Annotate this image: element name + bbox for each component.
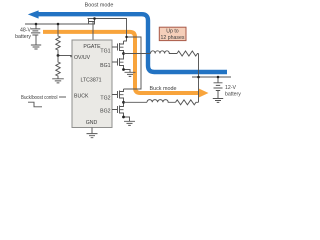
ground 48V battery <box>31 45 41 49</box>
svg-text:battery: battery <box>15 34 31 40</box>
transistor BG1 MOSFET <box>112 54 124 70</box>
wire BUCK control <box>59 96 66 98</box>
svg-text:BG1: BG1 <box>100 63 110 69</box>
svg-text:BG2: BG2 <box>100 109 110 115</box>
resistor R1 divider top <box>56 24 60 56</box>
node output join <box>197 76 200 79</box>
ground 12V battery <box>213 99 223 103</box>
inductor L1 <box>151 51 178 54</box>
svg-text:LTC3871: LTC3871 <box>81 77 102 83</box>
svg-text:Up to: Up to <box>166 29 179 35</box>
battery 12V <box>214 77 223 98</box>
node BG2 source <box>122 116 125 119</box>
label 12-V battery <box>225 85 241 98</box>
svg-text:battery: battery <box>225 92 241 98</box>
wire phase 2 switch node <box>124 101 148 103</box>
svg-text:OV/UV: OV/UV <box>74 55 91 61</box>
svg-text:GND: GND <box>86 120 98 126</box>
node switch phase 2 <box>122 101 125 104</box>
node feed branch <box>125 36 127 38</box>
ground divider <box>52 79 64 83</box>
transistor BG2 MOSFET <box>112 102 124 117</box>
svg-text:Boost mode: Boost mode <box>85 3 114 9</box>
waveform pulse symbol <box>28 102 42 107</box>
svg-text:12-V: 12-V <box>225 85 236 91</box>
node battery to rail <box>35 23 38 26</box>
wire 12V rail <box>192 76 231 78</box>
svg-text:TG2: TG2 <box>100 96 110 102</box>
ground BG2 <box>124 121 135 125</box>
svg-text:PGATE: PGATE <box>83 44 101 50</box>
svg-text:BUCK: BUCK <box>74 93 89 99</box>
svg-text:12 phases: 12 phases <box>161 35 185 41</box>
resistor R3 phase 1 <box>177 51 199 56</box>
pin tick OV/UV <box>70 55 73 57</box>
resistor R2 divider bottom <box>56 56 60 79</box>
svg-text:Buck/boost control: Buck/boost control <box>21 95 58 101</box>
svg-text:TG1: TG1 <box>100 49 110 55</box>
wire 48V branch to TG2 drain <box>124 37 142 89</box>
boost mode arrow (blue) <box>28 10 227 72</box>
wire phase outputs join <box>198 54 200 103</box>
transistor Q1 PGATE pass P-FET <box>89 19 96 25</box>
callout box Up to 12 phases <box>159 27 186 41</box>
ground GND pin <box>87 128 98 138</box>
wire BG1 source to ground <box>124 70 131 73</box>
node switch phase 1 <box>122 52 125 55</box>
label 48-V battery <box>15 27 31 40</box>
battery 48V <box>31 24 40 45</box>
resistor R4 phase 2 <box>176 100 199 105</box>
buck mode arrow (orange) <box>43 32 209 98</box>
transistor TG2 MOSFET <box>112 89 124 102</box>
node divider mid <box>57 54 60 57</box>
ground BG1 <box>125 72 136 76</box>
node P-FET drain <box>93 17 96 20</box>
node divider top <box>57 23 60 26</box>
wire 48V feed to TG1 drain <box>88 19 127 42</box>
node BG1 source <box>122 68 125 71</box>
svg-text:48-V: 48-V <box>20 27 31 33</box>
wire PGATE gate lead <box>92 22 94 41</box>
svg-text:Buck mode: Buck mode <box>150 86 177 92</box>
wire BG2 source to ground <box>124 117 130 121</box>
wire divider to OV/UV <box>58 55 72 57</box>
transistor TG1 MOSFET <box>112 41 124 54</box>
inductor L2 <box>147 100 176 103</box>
wire 48V top rail <box>25 23 95 25</box>
wire phase 1 switch node <box>124 53 151 55</box>
node battery 12V <box>217 76 220 79</box>
IC U1 LTC3871 buck-boost controller <box>72 40 112 128</box>
